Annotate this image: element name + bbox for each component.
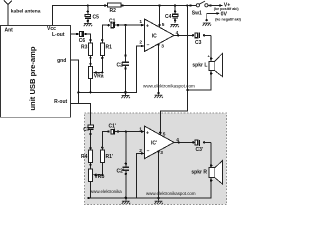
svg-text:www.elektronikaspot.com: www.elektronikaspot.com (146, 191, 196, 196)
pin 4' output wire (174, 141, 193, 143)
ground under 0V (206, 19, 208, 21)
svg-text:R4: R4 (81, 154, 88, 160)
svg-text:C5: C5 (93, 14, 100, 20)
resistor R4 (89, 150, 93, 163)
wire R1' top riser to C1' (102, 132, 108, 150)
ground rail left channel (78, 91, 136, 93)
op-amp IC' (right channel) (145, 126, 175, 159)
svg-text:1: 1 (139, 127, 142, 133)
switch Sw1 (196, 1, 208, 7)
svg-text:+: + (146, 24, 149, 30)
pin 2 wire (126, 46, 145, 92)
svg-text:1: 1 (139, 19, 142, 25)
svg-text:spkr R: spkr R (191, 170, 207, 176)
shaded right-channel panel (85, 113, 227, 205)
pin 2' wire (137, 153, 145, 198)
svg-text:C3': C3' (196, 147, 204, 153)
V+ long vertical to lower amp (160, 6, 187, 135)
speaker R (210, 142, 212, 198)
svg-text:unit USB pre-amp: unit USB pre-amp (28, 46, 37, 110)
svg-text:2: 2 (139, 148, 142, 154)
pin 5' dot (159, 131, 161, 133)
wire VRa bottom (90, 79, 92, 93)
speaker L (188, 35, 212, 90)
svg-text:VRa: VRa (94, 74, 104, 80)
svg-text:C7: C7 (83, 127, 90, 133)
svg-text:4: 4 (176, 30, 179, 36)
resistor R2 (108, 3, 122, 7)
svg-text:3: 3 (160, 150, 163, 156)
wire R1' bottom to VRb wiper (101, 163, 103, 175)
wire C1' to pin1' (115, 131, 145, 133)
capacitor C4 (174, 6, 176, 24)
svg-text:L-out: L-out (52, 32, 65, 38)
svg-text:C1': C1' (109, 123, 117, 129)
wire R4 to VRb (90, 163, 92, 170)
resistor R1 (101, 39, 103, 41)
svg-text:IC': IC' (151, 141, 157, 147)
wire C1 to pin1 (115, 24, 145, 26)
svg-text:4: 4 (176, 137, 179, 143)
wire VRb bottom (90, 182, 92, 198)
svg-text:2: 2 (139, 40, 142, 46)
capacitor C2 riser (125, 25, 127, 92)
pin 4 output wire (174, 34, 193, 36)
node dots on rail (87, 4, 89, 6)
capacitor C7 (88, 125, 93, 127)
svg-text:www.elektronika: www.elektronika (90, 189, 122, 194)
wire R1 top riser to C1 (102, 25, 108, 43)
op-amp IC (left) (145, 19, 175, 52)
pin 3 stub to ground (158, 44, 160, 93)
wire C3 to speaker L (204, 34, 211, 36)
resistor R1' (100, 150, 104, 163)
svg-text:C2': C2' (117, 168, 125, 174)
svg-text:spkr L: spkr L (192, 62, 207, 68)
svg-text:–: – (147, 43, 150, 49)
capacitor C3' (192, 141, 194, 143)
svg-text:–: – (147, 148, 150, 154)
wire R1 bottom to VRa wiper (101, 56, 103, 73)
svg-text:R-out: R-out (54, 99, 67, 105)
svg-text:+: + (146, 131, 149, 137)
svg-text:R1': R1' (106, 154, 114, 160)
svg-text:Sw1: Sw1 (192, 10, 202, 16)
wire Vcc riser and top rail (53, 6, 197, 26)
svg-text:5: 5 (163, 131, 166, 137)
pin 3' stub to rail (158, 151, 160, 200)
antenna (4, 1, 12, 26)
ground under C5 (84, 23, 93, 26)
svg-text:C6: C6 (79, 38, 86, 44)
potentiometer VRa (89, 67, 93, 79)
svg-text:R1: R1 (106, 45, 113, 51)
svg-text:5: 5 (162, 22, 165, 28)
wire to V+ with arrow (208, 5, 220, 7)
0V tap with arrow (207, 13, 218, 21)
svg-text:C3: C3 (195, 40, 202, 46)
svg-text:R3: R3 (81, 45, 88, 51)
resistor R3 (89, 39, 91, 41)
capacitor C2' (123, 167, 130, 170)
svg-text:C4: C4 (165, 14, 172, 20)
capacitor C2' riser (125, 132, 127, 198)
svg-text:kabel antena: kabel antena (11, 9, 41, 15)
svg-text:R2: R2 (110, 8, 117, 14)
unit USB pre-amp box (1, 26, 71, 118)
wire C3' to speaker R (204, 141, 211, 143)
capacitor C3 (192, 34, 194, 36)
svg-text:Ant: Ant (5, 28, 14, 34)
wire R-out to panel (71, 103, 91, 124)
ground rail right channel (89, 197, 212, 199)
pin 5 riser (159, 6, 161, 28)
capacitor C2 (122, 62, 129, 65)
potentiometer VRb (89, 169, 93, 182)
svg-text:(ke negatif aki): (ke negatif aki) (215, 17, 241, 21)
ground on rail (125, 92, 127, 95)
svg-text:IC: IC (152, 33, 157, 39)
svg-text:C2: C2 (117, 63, 124, 69)
svg-text:(ke positif aki): (ke positif aki) (214, 7, 240, 11)
capacitor C6 (80, 32, 83, 37)
gnd wire from pre-amp (71, 60, 79, 104)
svg-text:gnd: gnd (57, 58, 66, 64)
wire L-out (71, 34, 91, 43)
capacitor C5 (87, 6, 89, 24)
ground pin3 (154, 95, 163, 98)
wire R3 to VRa (90, 56, 92, 67)
svg-text:3: 3 (161, 44, 164, 50)
ground under C4 (170, 24, 179, 27)
